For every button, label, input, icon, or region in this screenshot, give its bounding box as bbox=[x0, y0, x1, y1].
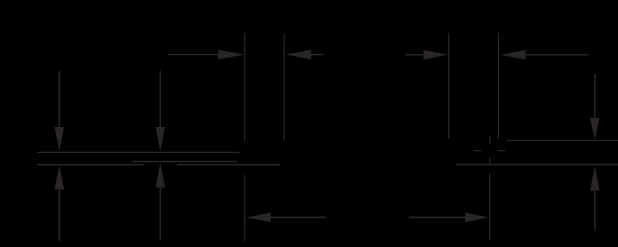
left part bottom line L3 bbox=[37, 164, 144, 166]
vertical dim 3 up line bbox=[594, 190, 596, 231]
left part top line L1 bbox=[37, 151, 239, 153]
vertical dim 2 up arrowhead bbox=[156, 163, 166, 188]
center mark vertical dash upper bbox=[489, 136, 491, 144]
vertical dim 2 up line bbox=[159, 187, 161, 241]
dimension A arrowhead right-pointing bbox=[218, 50, 245, 60]
left part middle line L2 bbox=[131, 161, 237, 163]
bottom dimension arrowhead right-pointing bbox=[465, 213, 489, 223]
extension line at x=448.6 bbox=[448, 33, 450, 139]
center mark vertical dash lower bbox=[489, 157, 491, 165]
vertical dim 1 down line at x=59.3 bbox=[58, 71, 60, 129]
dimension B arrowhead left-pointing bbox=[500, 50, 526, 60]
vertical dim 1 down arrowhead bbox=[55, 127, 65, 151]
dimension A arrowhead left-pointing bbox=[286, 50, 312, 60]
bottom dimension arrowhead left-pointing bbox=[246, 213, 270, 223]
vertical dim 1 up arrowhead bbox=[55, 166, 65, 190]
extension line below center mark x=489.7 bbox=[489, 173, 491, 240]
bottom dimension line left segment bbox=[270, 216, 326, 218]
center mark horizontal dash right bbox=[498, 150, 505, 152]
vertical dim 3 up arrowhead bbox=[590, 166, 600, 191]
dimension A tail right bbox=[311, 54, 324, 56]
left part bottom line L3 right segment bbox=[177, 164, 280, 166]
dimension A tail left bbox=[168, 54, 221, 56]
right part top line R1 bbox=[506, 140, 618, 142]
dimension B arrowhead right-pointing bbox=[424, 50, 449, 60]
extension line at x=244.7 bottom bbox=[244, 175, 246, 241]
extension line at x=498.4 bbox=[497, 33, 499, 139]
vertical dim 3 down arrowhead bbox=[590, 118, 600, 140]
bottom dimension line right segment bbox=[409, 216, 466, 218]
vertical dim 3 down line at x=594.8 bbox=[594, 74, 596, 119]
vertical dim 2 down arrowhead bbox=[156, 127, 166, 151]
center mark horizontal dash left bbox=[474, 150, 481, 152]
extension line at x=284.2 bbox=[283, 33, 285, 140]
dimension B tail right bbox=[525, 54, 589, 56]
dimension B tail left bbox=[405, 54, 425, 56]
vertical dim 1 up line bbox=[58, 189, 60, 242]
right part bottom line R2 bbox=[456, 164, 618, 166]
extension line at x=244.7 top bbox=[244, 33, 246, 141]
vertical dim 2 down line at x=160.3 bbox=[159, 71, 161, 129]
